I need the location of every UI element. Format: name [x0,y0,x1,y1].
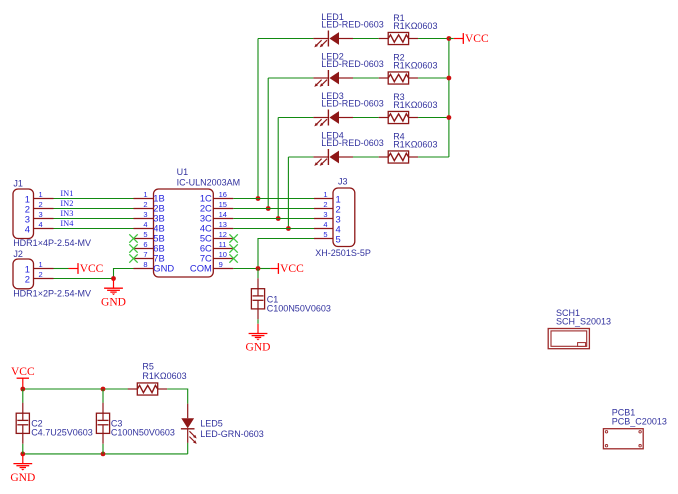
U1 pin 3 (3B) [134,218,154,220]
svg-text:2: 2 [25,273,30,284]
svg-text:15: 15 [219,200,227,209]
LED LED1 [313,31,353,48]
svg-text:VCC: VCC [465,33,489,45]
wire LED1 to R1 [353,38,379,40]
ground flag GND J2 [101,279,126,309]
svg-text:5: 5 [143,230,147,239]
U1 pin 16 (1C) [213,198,233,200]
connector J3 body [333,188,355,247]
wire J2.2 to GND node [54,278,114,280]
svg-text:1: 1 [143,190,147,199]
svg-text:7: 7 [143,250,147,259]
junction [266,206,271,211]
wire R3 to rail [418,117,449,119]
no-connect X [129,254,137,262]
U1 pin 12 (5C) [213,238,233,240]
wire C3 bottom [102,444,104,454]
svg-text:2: 2 [39,200,43,209]
wire bottom rail [23,453,188,455]
svg-text:C100N50V0603: C100N50V0603 [111,427,175,437]
svg-text:LED-GRN-0603: LED-GRN-0603 [200,429,264,439]
U1 pin 13 (4C) [213,228,233,230]
power flag VCC COM [271,263,304,275]
svg-text:VCC: VCC [80,263,104,275]
board symbol PCB1 [603,429,643,449]
svg-text:LED-RED-0603: LED-RED-0603 [321,99,384,109]
wire column node 4 [287,157,289,229]
ground flag GND C1 [246,324,271,354]
svg-text:4: 4 [25,223,30,234]
connector J2 body [13,259,34,289]
svg-text:LED-RED-0603: LED-RED-0603 [321,20,384,30]
svg-text:SCH_S20013: SCH_S20013 [556,317,611,327]
svg-text:VCC: VCC [11,366,35,378]
svg-text:16: 16 [219,190,227,199]
wire R5 to LED5 [167,389,188,404]
svg-text:GND: GND [153,262,174,273]
J2 pin 1 [34,268,54,270]
no-connect X [229,234,237,242]
svg-text:J1: J1 [13,178,23,188]
svg-text:1: 1 [39,260,43,269]
LED LED3 [313,110,353,127]
svg-text:GND: GND [246,342,271,354]
wire row 3 left [278,117,313,119]
capacitor C3 [96,403,109,444]
wire node to VCC [258,268,271,270]
wire net IN1 [54,198,134,200]
U1 pin 1 (1B) [134,198,154,200]
wire row 1 left [258,38,313,40]
no-connect X [229,254,237,262]
svg-text:U1: U1 [177,167,189,177]
svg-text:J2: J2 [13,249,23,259]
U1 pin 8 (GND) [134,268,154,270]
no-connect X [129,244,137,252]
svg-text:2: 2 [39,270,43,279]
wire C3 top [102,389,104,403]
junction [276,216,281,221]
svg-text:9: 9 [219,260,223,269]
wire net IN3 [54,218,134,220]
J3 pin 5 [314,238,333,240]
svg-text:6: 6 [143,240,147,249]
junction [447,36,452,41]
junction [447,76,452,81]
J3 pin 3 [314,218,333,220]
U1 pin 15 (2C) [213,208,233,210]
svg-text:1: 1 [39,190,43,199]
J1 pin 4 [34,228,54,230]
wire top rail [23,388,131,390]
LED LED5 [181,404,197,444]
svg-text:13: 13 [219,220,227,229]
svg-text:R1KΩ0603: R1KΩ0603 [393,100,437,110]
wire LED4 to R4 [353,156,379,158]
wire LED2 to R2 [353,77,379,79]
wire net IN4 [54,228,134,230]
wire column node 2 [267,78,269,209]
svg-text:PCB_C20013: PCB_C20013 [612,417,667,427]
J3 pin 2 [314,208,333,210]
svg-text:R1KΩ0603: R1KΩ0603 [393,21,437,31]
svg-text:IC-ULN2003AM: IC-ULN2003AM [177,178,241,188]
junction [286,226,291,231]
U1 pin 10 (7C) [213,258,233,260]
svg-text:R1KΩ0603: R1KΩ0603 [393,61,437,71]
LED LED4 [313,149,353,166]
svg-text:HDR1×2P-2.54-MV: HDR1×2P-2.54-MV [13,289,91,299]
LED LED2 [313,70,353,87]
svg-text:VCC: VCC [280,263,304,275]
svg-text:IN1: IN1 [60,189,73,198]
junction [101,387,106,392]
svg-text:2: 2 [323,200,327,209]
J1 pin 1 [34,198,54,200]
svg-text:C4.7U25V0603: C4.7U25V0603 [31,427,93,437]
svg-text:R1KΩ0603: R1KΩ0603 [142,371,186,381]
svg-text:J3: J3 [338,176,348,186]
J2 pin 2 [34,278,54,280]
svg-text:1: 1 [323,190,327,199]
junction [111,276,116,281]
U1 pin 11 (6C) [213,248,233,250]
wire VCC rail vertical [448,39,450,158]
J1 pin 2 [34,208,54,210]
junction [101,452,106,457]
J1 pin 3 [34,218,54,220]
wire J2.1 to VCC [54,268,69,270]
svg-text:4: 4 [143,220,147,229]
svg-text:3: 3 [323,210,327,219]
svg-text:4: 4 [39,220,43,229]
wire C1 to GND [257,319,259,324]
J3 pin 1 [314,198,333,200]
svg-text:R5: R5 [142,361,154,371]
connector J1 body [13,189,34,239]
svg-text:5: 5 [336,233,341,244]
svg-text:8: 8 [143,260,147,269]
wire C2 top [22,389,24,403]
wire row 4 left [288,156,313,158]
svg-text:IN4: IN4 [60,219,74,228]
ground flag GND bottom [10,454,35,484]
wire U1 2C to J3 pin 2 [233,208,314,210]
svg-text:C100N50V0603: C100N50V0603 [267,304,331,314]
wire GND node to U1 pin 8 [114,269,134,279]
U1 pin 4 (4B) [134,228,154,230]
wire R2 to rail [418,77,449,79]
resistor R4 [379,151,418,163]
U1 pin 9 (COM) [213,268,233,270]
svg-text:3: 3 [143,210,147,219]
svg-text:LED-RED-0603: LED-RED-0603 [321,59,384,69]
svg-text:5: 5 [323,230,327,239]
U1 pin 2 (2B) [134,208,154,210]
svg-text:2: 2 [143,200,147,209]
svg-text:XH-2501S-5P: XH-2501S-5P [315,248,371,258]
junction [256,196,261,201]
wire COM node down to C1 [257,269,259,279]
op IC U1 body [154,189,214,277]
svg-text:3: 3 [39,210,43,219]
resistor R1 [379,32,418,44]
resistor R5 [128,383,167,395]
svg-text:GND: GND [10,472,35,484]
J3 pin 4 [314,228,333,230]
wire J3 pin 5 to COM node [258,239,314,269]
wire column node 1 [257,39,259,199]
svg-text:LED-RED-0603: LED-RED-0603 [321,138,384,148]
svg-text:IN2: IN2 [60,199,73,208]
junction [447,115,452,120]
junction [20,452,25,457]
wire U1 3C to J3 pin 3 [233,218,314,220]
U1 pin 6 (6B) [134,248,154,250]
svg-text:IN3: IN3 [60,209,73,218]
capacitor C1 [251,278,264,319]
svg-text:COM: COM [190,262,212,273]
power flag VCC top [454,33,489,45]
wire row 2 left [268,77,313,79]
junction [20,387,25,392]
U1 pin 5 (5B) [134,238,154,240]
junction [256,266,261,271]
wire LED3 to R3 [353,117,379,119]
power flag VCC bottom [11,366,35,389]
wire R1 to rail [418,38,449,40]
capacitor C2 [16,403,29,444]
svg-text:4: 4 [323,220,327,229]
resistor R3 [379,111,418,123]
power flag VCC J2 [69,263,104,275]
U1 pin 7 (7B) [134,258,154,260]
no-connect X [129,234,137,242]
wire U1 1C to J3 pin 1 [233,198,314,200]
svg-text:14: 14 [219,210,227,219]
no-connect X [229,244,237,252]
svg-text:HDR1×4P-2.54-MV: HDR1×4P-2.54-MV [13,238,91,248]
wire column node 3 [277,118,279,219]
svg-text:12: 12 [219,230,227,239]
wire rail to VCC [449,38,454,40]
wire R4 to rail [418,156,449,158]
wire U1 4C to J3 pin 4 [233,228,314,230]
wire LED5 bottom [187,443,189,454]
wire U1 COM to node [233,268,258,270]
svg-text:GND: GND [101,296,126,308]
svg-text:11: 11 [219,240,227,249]
svg-text:LED5: LED5 [200,418,223,428]
U1 pin 14 (3C) [213,218,233,220]
svg-text:R1KΩ0603: R1KΩ0603 [393,140,437,150]
sheet symbol SCH1 [548,329,589,349]
resistor R2 [379,72,418,84]
svg-text:10: 10 [219,250,227,259]
wire C2 bottom [22,444,24,454]
wire net IN2 [54,208,134,210]
